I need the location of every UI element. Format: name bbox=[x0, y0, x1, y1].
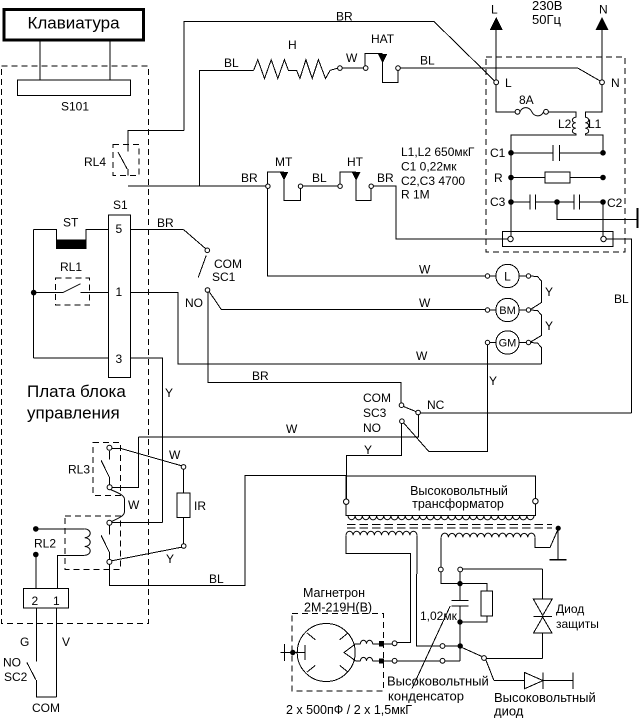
svg-text:BM: BM bbox=[499, 305, 516, 317]
switch SC2 bbox=[3, 656, 60, 716]
svg-text:W: W bbox=[286, 422, 298, 436]
filter values label bbox=[401, 145, 475, 202]
wire SC1 NO down to SC3 bbox=[208, 292, 401, 403]
chassis bar bbox=[636, 208, 638, 228]
svg-text:BL: BL bbox=[209, 572, 224, 586]
svg-text:COM: COM bbox=[214, 257, 242, 271]
label leader capacitor bbox=[412, 606, 450, 689]
svg-text:МТ: МТ bbox=[275, 155, 293, 169]
magnetron antenna bbox=[280, 644, 305, 661]
svg-text:BL: BL bbox=[224, 56, 239, 70]
wire fuse to L2 bbox=[548, 112, 575, 118]
wire keyboard to S101 left bbox=[39, 42, 41, 81]
label HV capacitor bbox=[387, 674, 489, 704]
svg-text:BR: BR bbox=[157, 216, 174, 230]
wire RL4 feed bbox=[128, 130, 184, 144]
bleed resistor bbox=[460, 584, 493, 622]
svg-text:BL: BL bbox=[312, 171, 327, 185]
motor GM bbox=[485, 331, 530, 354]
svg-text:W: W bbox=[346, 51, 358, 65]
svg-text:трансформатор: трансформатор bbox=[412, 497, 504, 511]
wire node down to lower filament bbox=[459, 646, 461, 661]
capacitors C3 C2 bbox=[490, 195, 623, 211]
noise filter dashed box bbox=[486, 57, 625, 252]
svg-text:НАТ: НАТ bbox=[371, 32, 395, 46]
svg-text:N: N bbox=[599, 3, 608, 17]
wire RL2 pin2 bbox=[33, 552, 39, 589]
svg-text:RL4: RL4 bbox=[84, 155, 106, 169]
wire NC to BL bbox=[420, 412, 631, 414]
wire G bbox=[20, 608, 36, 661]
svg-text:BR: BR bbox=[377, 171, 394, 185]
svg-text:SC2: SC2 bbox=[4, 670, 28, 684]
connector pin HV 2 bbox=[458, 567, 463, 572]
connector pin mid filament bbox=[440, 644, 457, 649]
terminal L mains bbox=[491, 3, 502, 80]
junction RL1 bbox=[31, 290, 37, 296]
svg-text:BR: BR bbox=[241, 171, 258, 185]
svg-text:BL: BL bbox=[614, 292, 629, 306]
svg-text:Y: Y bbox=[364, 443, 372, 457]
magnetron label bbox=[303, 586, 372, 615]
relay RL1 bbox=[34, 260, 109, 305]
svg-text:S1: S1 bbox=[113, 198, 128, 212]
svg-text:R: R bbox=[494, 171, 503, 185]
motor L lamp bbox=[485, 264, 530, 287]
svg-text:Высоковольтный: Высоковольтный bbox=[387, 674, 489, 689]
wire keyboard to S101 right bbox=[109, 42, 111, 81]
wire NO to Y bbox=[404, 423, 488, 452]
svg-text:диод: диод bbox=[494, 704, 524, 719]
svg-text:Плата блока: Плата блока bbox=[27, 382, 126, 401]
wire Y BM to GM bbox=[531, 310, 553, 342]
svg-text:COM: COM bbox=[363, 391, 391, 405]
svg-text:L: L bbox=[504, 270, 511, 284]
svg-text:RL2: RL2 bbox=[34, 537, 56, 551]
wire filament lead left bbox=[346, 535, 411, 642]
wire V bbox=[57, 608, 70, 697]
HV diode bbox=[494, 672, 596, 718]
inductor L2 bbox=[558, 117, 576, 134]
svg-text:Y: Y bbox=[166, 552, 174, 566]
svg-text:5: 5 bbox=[116, 222, 123, 236]
RL2 coil bbox=[33, 526, 90, 588]
svg-text:Высоковольтный: Высоковольтный bbox=[410, 484, 508, 498]
svg-text:SC1: SC1 bbox=[212, 270, 236, 284]
thermostat ST bbox=[34, 216, 109, 249]
wire NC down to W bbox=[139, 415, 419, 437]
heater H bbox=[254, 38, 338, 79]
transformer core bbox=[347, 525, 552, 528]
board label bbox=[27, 382, 126, 423]
switch SC1 bbox=[185, 248, 242, 310]
svg-text:управления: управления bbox=[27, 404, 120, 423]
svg-text:V: V bbox=[62, 635, 70, 649]
svg-text:2 х 500пФ / 2 х 1,5мкГ: 2 х 500пФ / 2 х 1,5мкГ bbox=[286, 703, 412, 717]
svg-text:W: W bbox=[419, 263, 431, 277]
wire lower filament row bbox=[397, 658, 460, 663]
protection diode Диод защиты bbox=[533, 569, 598, 659]
svg-text:Магнетрон: Магнетрон bbox=[303, 586, 365, 600]
svg-text:RL3: RL3 bbox=[68, 463, 90, 477]
svg-text:Y: Y bbox=[545, 285, 553, 299]
wire Y GM down bbox=[429, 345, 497, 452]
svg-text:НТ: НТ bbox=[347, 155, 364, 169]
svg-text:С2: С2 bbox=[607, 196, 623, 210]
resistor IR bbox=[177, 465, 206, 549]
svg-text:G: G bbox=[20, 635, 29, 649]
wire Y lamp to BM bbox=[531, 276, 553, 309]
magnetron tube bbox=[297, 624, 356, 682]
node N bbox=[600, 76, 620, 90]
keyboard box Клавиатура bbox=[4, 10, 144, 41]
svg-text:COM: COM bbox=[32, 701, 60, 715]
wire L to fuse bbox=[496, 85, 515, 112]
wire BL to N bbox=[400, 68, 599, 81]
svg-text:1,02мк: 1,02мк bbox=[420, 609, 458, 623]
svg-text:NC: NC bbox=[427, 398, 445, 412]
wire BL heater drop bbox=[199, 70, 253, 186]
svg-text:GM: GM bbox=[499, 338, 517, 350]
inductor L1 bbox=[585, 117, 601, 134]
svg-text:RL1: RL1 bbox=[60, 260, 82, 274]
svg-text:С3: С3 bbox=[490, 195, 506, 209]
wire diode bottom to switch bbox=[486, 658, 542, 660]
svg-text:8А: 8А bbox=[519, 93, 534, 107]
svg-text:BR: BR bbox=[252, 369, 269, 383]
svg-text:L1: L1 bbox=[588, 117, 602, 131]
wire pin3 left bbox=[34, 357, 109, 359]
svg-text:конденсатор: конденсатор bbox=[388, 689, 464, 704]
svg-text:ST: ST bbox=[63, 216, 79, 230]
svg-text:2: 2 bbox=[32, 594, 39, 608]
wire W s-curve RL3 to RL2 bbox=[111, 490, 141, 522]
svg-text:W: W bbox=[169, 448, 181, 462]
svg-text:BL: BL bbox=[420, 54, 435, 68]
svg-text:NO: NO bbox=[363, 421, 381, 435]
HV transformer bbox=[344, 476, 539, 515]
wire pin2 down bbox=[459, 572, 461, 584]
connector S101 bbox=[18, 80, 131, 113]
label 230V 50Hz bbox=[532, 0, 562, 27]
svg-text:L1,L2 650мкГ: L1,L2 650мкГ bbox=[401, 145, 475, 159]
switch SC3 bbox=[363, 391, 445, 435]
svg-text:1: 1 bbox=[53, 594, 60, 608]
motor BM bbox=[485, 298, 530, 321]
svg-text:50Гц: 50Гц bbox=[532, 12, 561, 27]
svg-text:Y: Y bbox=[165, 386, 173, 400]
filament winding bbox=[346, 531, 417, 535]
wire pin5 to SC1 bbox=[131, 216, 206, 249]
svg-text:NO: NO bbox=[3, 656, 21, 670]
wire filament lead right bbox=[416, 535, 440, 646]
wire BL RL2 to transformer bbox=[109, 476, 346, 586]
wire L2 to C1 left bbox=[511, 134, 576, 153]
wire pin2 to diode branch bbox=[463, 568, 543, 570]
connector board 2 1 bbox=[24, 589, 69, 609]
capacitor C1 bbox=[490, 145, 606, 161]
wire chassis tap bbox=[557, 202, 637, 220]
svg-text:SC3: SC3 bbox=[363, 406, 387, 420]
svg-text:N: N bbox=[611, 76, 620, 90]
relay RL2 bbox=[34, 516, 121, 570]
connector S1 bbox=[109, 198, 131, 378]
left rail bbox=[33, 230, 35, 358]
wire SC1 NO to BM bbox=[209, 292, 485, 310]
wire N to L1 bbox=[585, 85, 602, 118]
svg-text:IR: IR bbox=[194, 499, 206, 513]
ground chassis bbox=[550, 528, 567, 560]
svg-text:L: L bbox=[491, 3, 498, 17]
HV winding bbox=[441, 533, 535, 537]
wire L1 to C1 right bbox=[585, 134, 603, 153]
svg-text:1: 1 bbox=[116, 285, 123, 299]
svg-text:R 1М: R 1М bbox=[401, 188, 430, 202]
wire Y to RL2 top bbox=[112, 522, 162, 524]
wire HT to filter connector bbox=[373, 186, 507, 239]
switch MT bbox=[266, 155, 303, 200]
svg-text:W: W bbox=[416, 349, 428, 363]
switch HV pin bbox=[462, 648, 494, 681]
svg-text:2М-219Н(В): 2М-219Н(В) bbox=[304, 601, 372, 615]
svg-text:W: W bbox=[128, 498, 140, 512]
filter connector bbox=[503, 232, 614, 247]
control board dashed outline bbox=[2, 66, 149, 624]
svg-text:3: 3 bbox=[116, 352, 123, 366]
wire filter left rail bbox=[510, 153, 512, 236]
relay RL3 bbox=[68, 443, 121, 496]
svg-text:С1 0,22мк: С1 0,22мк bbox=[401, 160, 457, 174]
switch HT bbox=[338, 155, 374, 200]
terminal N mains bbox=[596, 3, 607, 80]
svg-text:защиты: защиты bbox=[556, 617, 599, 631]
svg-text:S101: S101 bbox=[61, 100, 89, 114]
junction core ground bbox=[556, 526, 561, 531]
junction cap top bbox=[457, 581, 462, 586]
wire pin1 to W bbox=[131, 293, 542, 364]
HV capacitor 1,02mk bbox=[420, 584, 468, 623]
svg-text:BR: BR bbox=[336, 10, 353, 24]
svg-text:С1: С1 bbox=[490, 146, 506, 160]
filament bottom lead bbox=[356, 657, 397, 663]
svg-text:Y: Y bbox=[489, 374, 497, 388]
wire cap bottom to filament node bbox=[459, 622, 461, 646]
fuse 8A bbox=[515, 93, 548, 116]
svg-text:Клавиатура: Клавиатура bbox=[27, 14, 120, 33]
wire BL right rail bbox=[606, 239, 631, 413]
connector pin HV bbox=[438, 567, 443, 572]
svg-text:С2,С3 4700: С2,С3 4700 bbox=[401, 174, 465, 188]
junction cap bottom bbox=[457, 619, 462, 624]
magnetron dashed box bbox=[292, 613, 384, 691]
svg-text:L: L bbox=[505, 76, 512, 90]
svg-text:Y: Y bbox=[545, 319, 553, 333]
wire BR RL4 to MT bbox=[128, 185, 266, 187]
svg-text:L2: L2 bbox=[558, 117, 572, 131]
wire pin to cap node bbox=[441, 572, 458, 584]
wire GM right to W bbox=[531, 343, 542, 364]
svg-text:Диод: Диод bbox=[556, 602, 584, 616]
wire BR top bbox=[184, 22, 495, 131]
wire W to lamp bbox=[268, 188, 486, 276]
wire pin3 Y down bbox=[131, 358, 173, 523]
switch HAT bbox=[338, 32, 401, 83]
wire IR to RL2 bottom bbox=[112, 547, 182, 566]
junction filament bbox=[458, 643, 463, 648]
svg-text:NO: NO bbox=[185, 296, 203, 310]
transformer primary winding bbox=[348, 516, 534, 520]
wire HV winding to connector bbox=[440, 537, 442, 567]
relay RL4 bbox=[84, 145, 139, 176]
wire NO to transformer bbox=[346, 424, 401, 500]
svg-text:H: H bbox=[288, 38, 297, 52]
wire RL3 top to IR bbox=[112, 448, 182, 465]
node L bbox=[494, 76, 512, 90]
wire RL3 bottom to W bbox=[112, 437, 139, 487]
wire MT to HT BL bbox=[303, 171, 338, 186]
svg-text:W: W bbox=[419, 296, 431, 310]
wire filter right rail bbox=[602, 202, 604, 236]
filament top lead bbox=[356, 640, 397, 646]
resistor R bbox=[494, 171, 606, 185]
wire HV winding to core bbox=[535, 529, 558, 548]
